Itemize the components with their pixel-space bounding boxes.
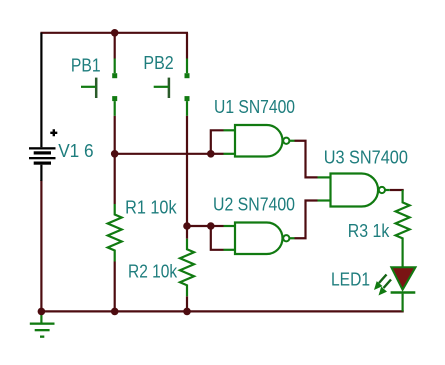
wire bottom ground rail xyxy=(41,310,403,312)
wire PB2 bottom to R2 top xyxy=(186,116,188,239)
wire battery negative lead xyxy=(40,180,42,311)
LED1 emission arrows xyxy=(374,275,391,296)
wire node A stub to U1 pin B xyxy=(211,153,224,155)
junction dot node A at PB1/R1 xyxy=(111,150,119,158)
pushbutton PB1 xyxy=(81,59,117,116)
resistor R2 10k xyxy=(180,239,194,296)
svg-text:U3 SN7400: U3 SN7400 xyxy=(324,148,408,168)
junction dot top rail / PB1 xyxy=(111,29,119,37)
svg-text:R2 10k: R2 10k xyxy=(128,262,178,282)
svg-text:LED1: LED1 xyxy=(331,269,370,289)
wire PB1 bottom to R1 top xyxy=(114,116,116,204)
wire U1 output to U3 input A xyxy=(295,141,318,178)
NAND gate U3 SN7400 xyxy=(318,174,390,207)
pushbutton PB2 xyxy=(154,59,190,116)
NAND gate U1 SN7400 xyxy=(224,125,295,157)
LED1 diode xyxy=(391,267,416,311)
NAND gate U2 SN7400 xyxy=(224,223,295,255)
wire U3 output to R3 top xyxy=(390,189,404,191)
junction dot node B at PB2/R2 xyxy=(183,222,191,230)
svg-text:PB2: PB2 xyxy=(143,53,173,73)
ground symbol xyxy=(30,311,55,337)
resistor R1 10k xyxy=(108,204,122,262)
wire PB2 top lead from top rail xyxy=(186,33,188,59)
resistor R3 1k xyxy=(396,190,410,267)
svg-text:U1 SN7400: U1 SN7400 xyxy=(214,97,295,117)
wire node B stub to U2 pin A xyxy=(211,225,224,227)
wire R1 bottom to ground rail xyxy=(114,262,116,312)
junction dot node B at U2 inputs xyxy=(207,222,215,230)
svg-text:U2 SN7400: U2 SN7400 xyxy=(213,194,295,214)
svg-text:V1 6: V1 6 xyxy=(58,141,93,161)
wire PB1 top lead from top rail xyxy=(114,33,116,59)
wire U1 input loop up xyxy=(211,130,224,154)
junction dot ground rail at R1 xyxy=(111,308,119,316)
svg-text:R1 10k: R1 10k xyxy=(125,198,177,218)
svg-text:R3 1k: R3 1k xyxy=(348,221,390,241)
battery V1 6V xyxy=(29,33,57,181)
wire node A horizontal from PB1/R1 to U1 inputs xyxy=(115,153,211,155)
wire top rail from battery + to PB2 xyxy=(40,32,188,34)
wire U2 output to U3 input B xyxy=(295,201,318,239)
junction dot node A at U1 inputs xyxy=(207,150,215,158)
wire R2 bottom to ground rail xyxy=(186,296,188,311)
wire node B horizontal from PB2/R2 to U2 xyxy=(187,225,211,227)
junction dot ground rail at battery xyxy=(38,308,46,316)
wire U2 input loop down xyxy=(211,226,224,250)
svg-text:PB1: PB1 xyxy=(71,56,101,76)
junction dot ground rail at R2 xyxy=(183,308,191,316)
